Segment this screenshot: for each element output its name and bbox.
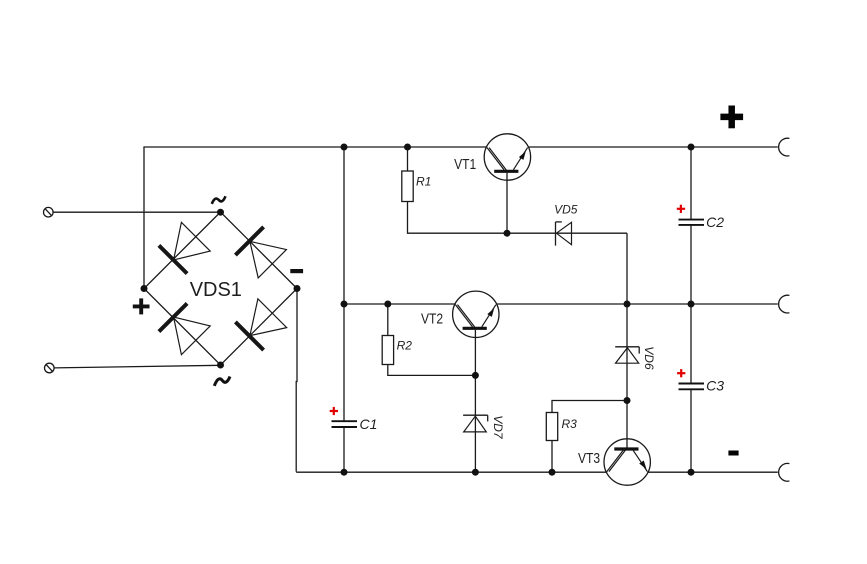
- wire right rail segments: [690, 147, 692, 472]
- polarity plus C3: [677, 369, 685, 377]
- input terminal X1: [44, 207, 54, 217]
- svg-text:C3: C3: [706, 377, 724, 393]
- wire input top: [53, 211, 220, 213]
- wire bottom rail right segment: [647, 471, 778, 473]
- node bottom rail C1: [341, 469, 348, 476]
- svg-text:VT2: VT2: [421, 310, 443, 327]
- wire top rail right segment: [528, 146, 778, 148]
- wire VT2 base down: [474, 330, 476, 376]
- capacitor C2: [679, 220, 705, 225]
- svg-text:R3: R3: [562, 417, 578, 431]
- node top rail C2: [688, 144, 695, 151]
- minus sign output: [728, 451, 738, 456]
- wire middle rail to VT3 base through VD6: [626, 304, 628, 401]
- resistor R1: [402, 147, 507, 233]
- plus sign output: [720, 106, 743, 129]
- node top rail R1: [404, 144, 411, 151]
- svg-text:R1: R1: [416, 174, 431, 188]
- transistor VT3: [604, 439, 650, 485]
- node VT1 base: [504, 230, 511, 237]
- node VT3 base R3: [624, 397, 631, 404]
- wire VT1 base down: [506, 173, 508, 233]
- resistor R2: [382, 304, 475, 375]
- wire middle rail right segment: [497, 303, 778, 305]
- svg-text:R2: R2: [397, 339, 413, 353]
- wire from - node down to bottom rail: [295, 289, 298, 472]
- node bottom rail C3: [688, 469, 695, 476]
- node middle rail x344: [341, 301, 348, 308]
- node VT2 base: [472, 372, 479, 379]
- wire C1 branch lower: [343, 427, 345, 472]
- wire input bottom: [54, 365, 220, 368]
- transistor VT2: [453, 291, 499, 337]
- diode VDS1 top-right: [235, 227, 286, 278]
- capacitor C1: [332, 421, 358, 427]
- plus sign bridge output: [133, 298, 150, 314]
- wire VT2 base to bottom rail through VD7: [474, 375, 476, 472]
- diode VDS1 top-left: [159, 222, 210, 273]
- wire vertical top rail to middle rail at x344: [343, 147, 345, 304]
- output terminal minus: [779, 463, 790, 481]
- node top rail x344: [341, 144, 348, 151]
- diode VDS1 bottom-right: [235, 299, 286, 350]
- input terminal X2: [45, 363, 55, 373]
- svg-text:VT3: VT3: [578, 450, 600, 467]
- svg-text:C2: C2: [706, 214, 724, 230]
- node bridge bottom: [217, 362, 224, 369]
- svg-text:VD5: VD5: [554, 202, 578, 216]
- zener diode VD6: [615, 347, 639, 363]
- capacitor C3: [679, 384, 705, 390]
- svg-text:VD7: VD7: [491, 415, 505, 440]
- wire left vertical from + node to top rail: [143, 147, 145, 289]
- AC tilde bottom: [214, 377, 230, 386]
- node middle rail R2: [384, 301, 391, 308]
- node middle rail C2: [688, 301, 695, 308]
- node bridge top: [217, 209, 224, 216]
- node bridge right: [294, 285, 301, 292]
- svg-text:VT1: VT1: [454, 156, 476, 173]
- wire C1 branch upper: [343, 304, 345, 421]
- wire top rail left segment: [143, 146, 487, 148]
- polarity plus C1: [330, 407, 338, 415]
- output terminal plus: [779, 138, 790, 156]
- zener diode VD5: [507, 222, 627, 246]
- svg-text:C1: C1: [360, 416, 378, 432]
- resistor R3: [546, 401, 627, 473]
- svg-text:VDS1: VDS1: [190, 279, 242, 301]
- svg-text:VD6: VD6: [642, 346, 656, 370]
- transistor VT1: [484, 134, 530, 180]
- polarity plus C2: [677, 205, 685, 213]
- diode VDS1 bottom-left: [159, 303, 210, 354]
- wire middle rail left segment: [344, 303, 456, 305]
- wire bottom rail left segment: [296, 471, 607, 473]
- node bottom rail VD7: [472, 469, 479, 476]
- node bottom rail R3: [549, 469, 556, 476]
- minus sign bridge output: [290, 269, 303, 273]
- wire VT3 base up: [626, 401, 628, 449]
- AC tilde top: [212, 196, 226, 204]
- zener diode VD7: [463, 415, 488, 432]
- node middle rail x627: [624, 301, 631, 308]
- node bridge left: [141, 285, 148, 292]
- bridge rectifier VDS1 outline: [144, 212, 297, 365]
- output terminal mid: [779, 295, 790, 313]
- wire VD5 anode down to middle rail: [626, 233, 628, 304]
